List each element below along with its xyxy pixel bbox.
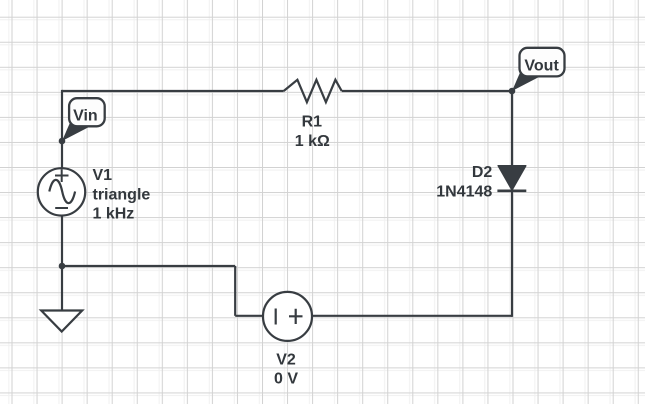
diode D2 cathode bar (497, 190, 526, 193)
svg-text:triangle: triangle (93, 186, 151, 203)
Vin label flag tail (62, 122, 88, 142)
wire right vertical (bottom corner up to diode cathode) (511, 191, 513, 317)
V1 plus sign (55, 169, 69, 182)
svg-text:0 V: 0 V (274, 371, 298, 388)
svg-text:1N4148: 1N4148 (436, 183, 492, 200)
wire V2 branch vertical drop (234, 266, 236, 316)
wire V2 right terminal to bottom-right corner (312, 315, 512, 317)
wire junction horizontal to V2 branch (62, 265, 235, 267)
svg-text:R1: R1 (302, 114, 323, 131)
wire into V2 left terminal (235, 315, 263, 317)
wire top-left horizontal (Vin corner to resistor) (62, 90, 284, 92)
Vout label bubble (520, 48, 565, 77)
svg-text:1 kΩ: 1 kΩ (295, 133, 330, 150)
voltage source V1 circle (38, 168, 85, 215)
wire V1 bottom to ground junction (61, 216, 63, 311)
wire top-right horizontal (resistor to Vout node) (342, 90, 512, 92)
Vin label bubble (69, 98, 105, 126)
svg-text:V2: V2 (276, 352, 296, 369)
node ground junction dot (59, 263, 66, 270)
node Vin junction dot (59, 138, 66, 145)
svg-text:Vout: Vout (524, 58, 559, 75)
svg-text:1 kHz: 1 kHz (93, 206, 135, 223)
diode D2 triangle (anode) (498, 166, 526, 190)
node Vout junction dot (509, 88, 516, 95)
Vout label flag tail (512, 72, 538, 92)
V1 sine waveform glyph (49, 180, 75, 203)
V1 minus sign (55, 207, 68, 209)
V2 bar (negative terminal mark) (275, 309, 277, 325)
wire diode anode up to Vout node (511, 91, 513, 166)
ground symbol (41, 311, 82, 332)
resistor R1 zigzag (284, 80, 342, 102)
svg-text:Vin: Vin (73, 107, 98, 124)
V2 plus sign (289, 309, 303, 324)
wire left vertical (corner down to V1 top) (61, 90, 63, 168)
svg-text:V1: V1 (93, 167, 113, 184)
voltage source V2 circle (263, 292, 312, 341)
svg-text:D2: D2 (472, 164, 493, 181)
